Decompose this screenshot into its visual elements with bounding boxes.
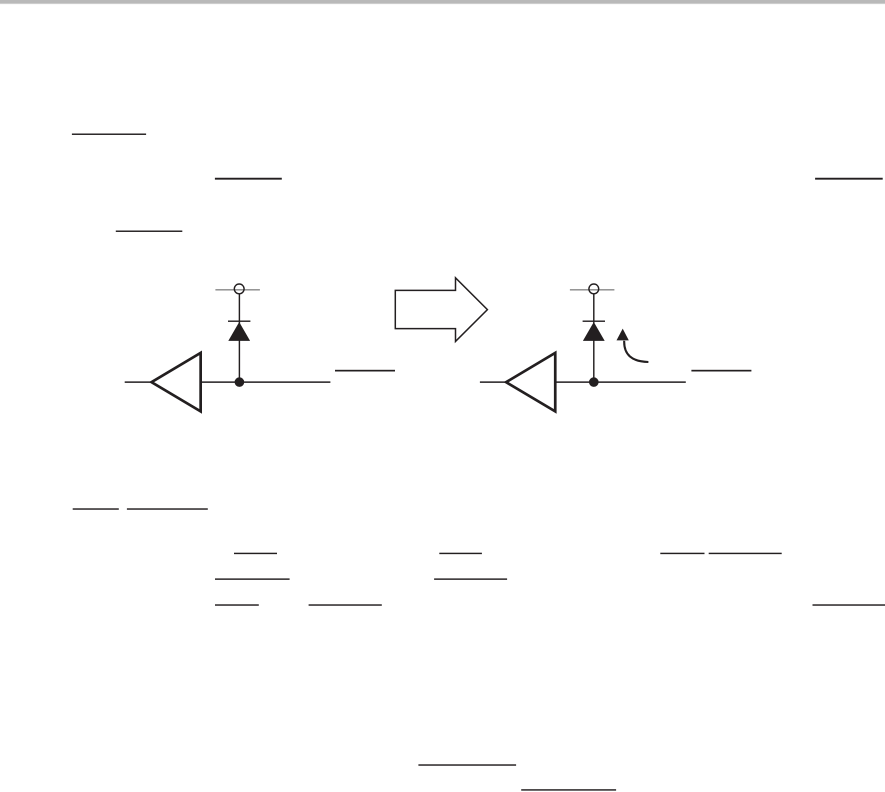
VCC terminal (left) <box>234 284 244 294</box>
link underline (row 5a) <box>215 578 290 579</box>
annotation arrow (curved) <box>617 329 649 362</box>
label underline I/O (right) <box>691 370 751 372</box>
link underline (row 4d) <box>709 553 782 554</box>
buffer U2 <box>506 353 555 412</box>
footer underline (row 8) <box>521 789 616 790</box>
wire diode branch (left) <box>238 294 240 383</box>
link underline (row 3b) <box>127 508 208 509</box>
footer underline (row 7) <box>418 764 516 765</box>
junction node (right) <box>589 377 599 387</box>
wire diode branch (right) <box>593 294 595 383</box>
diode D2 <box>583 321 605 341</box>
heading underline (top left) <box>72 134 146 135</box>
link underline (row 2) <box>116 231 183 232</box>
link underline (bold, mid row left) <box>215 178 282 180</box>
buffer U1 <box>152 353 201 412</box>
block arrow <box>395 278 487 342</box>
link underline (row 3a) <box>73 508 119 509</box>
label underline I/O (left) <box>335 370 395 372</box>
link underline (row 6a) <box>215 604 259 605</box>
link underline (row 6c) <box>813 604 885 605</box>
page header bar <box>0 0 885 4</box>
junction node (left) <box>235 377 245 387</box>
link underline (row 4c) <box>660 553 704 554</box>
link underline (bold, mid row right) <box>815 178 883 180</box>
VCC terminal (right) <box>589 284 599 294</box>
link underline (row 4b) <box>439 553 482 554</box>
link underline (row 4a) <box>234 553 277 554</box>
wire U2 output <box>556 381 686 383</box>
VCC rail (right) <box>570 289 615 291</box>
wire U2 input <box>480 381 506 383</box>
diode D1 <box>228 321 250 341</box>
wire U1 input <box>125 381 152 383</box>
wire U1 output <box>201 381 330 383</box>
link underline (row 6b) <box>309 604 382 605</box>
link underline (row 5b) <box>434 578 507 579</box>
VCC rail (left) <box>215 289 260 291</box>
